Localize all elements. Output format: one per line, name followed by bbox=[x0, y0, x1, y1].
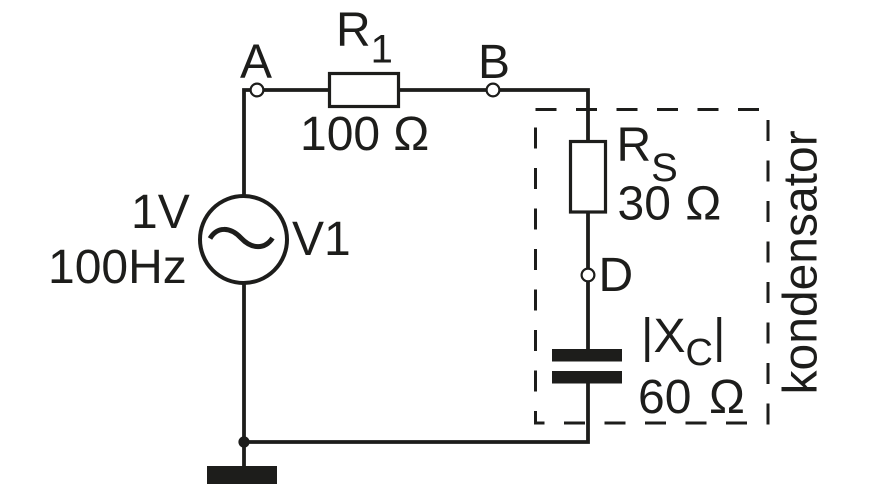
node A circle bbox=[251, 84, 264, 97]
dashed box (kondensator) bbox=[536, 110, 769, 424]
capacitor plate top bbox=[552, 349, 622, 362]
svg-text:100Hz: 100Hz bbox=[48, 241, 187, 294]
wire: Rs bottom to node D to capacitor top bbox=[586, 211, 590, 350]
svg-text:D: D bbox=[599, 249, 634, 302]
wire: top horizontal from R1 right side to top-right corner, down to Rs top bbox=[398, 90, 588, 143]
svg-text:|XC|: |XC| bbox=[641, 310, 725, 374]
svg-text:R1: R1 bbox=[336, 4, 393, 72]
wire: ground stub bbox=[242, 442, 246, 467]
junction dot bbox=[238, 436, 249, 447]
svg-text:V1: V1 bbox=[292, 213, 351, 266]
wire: bottom rail from junction to bottom-right corner up to capacitor bbox=[244, 382, 588, 442]
capacitor plate bottom bbox=[552, 371, 622, 384]
svg-text:kondensator: kondensator bbox=[775, 130, 828, 394]
ground bar bbox=[207, 466, 277, 484]
source V1 circle bbox=[200, 196, 287, 283]
node B circle bbox=[487, 84, 500, 97]
svg-text:Ω: Ω bbox=[709, 371, 745, 424]
svg-text:100 Ω: 100 Ω bbox=[300, 108, 429, 161]
source V1 sine wave bbox=[210, 229, 273, 246]
wire: top-left vertical from node A corner down to source top bbox=[244, 90, 330, 197]
svg-text:1V: 1V bbox=[131, 186, 190, 239]
svg-text:30: 30 bbox=[618, 178, 671, 231]
svg-text:60: 60 bbox=[638, 371, 691, 424]
resistor Rs body bbox=[571, 142, 606, 213]
svg-text:B: B bbox=[478, 36, 510, 89]
svg-text:Ω: Ω bbox=[685, 178, 721, 231]
svg-text:A: A bbox=[240, 36, 272, 89]
node D circle bbox=[582, 269, 595, 282]
resistor R1 body bbox=[330, 74, 399, 107]
wire: source bottom down to bottom rail bbox=[242, 283, 246, 442]
